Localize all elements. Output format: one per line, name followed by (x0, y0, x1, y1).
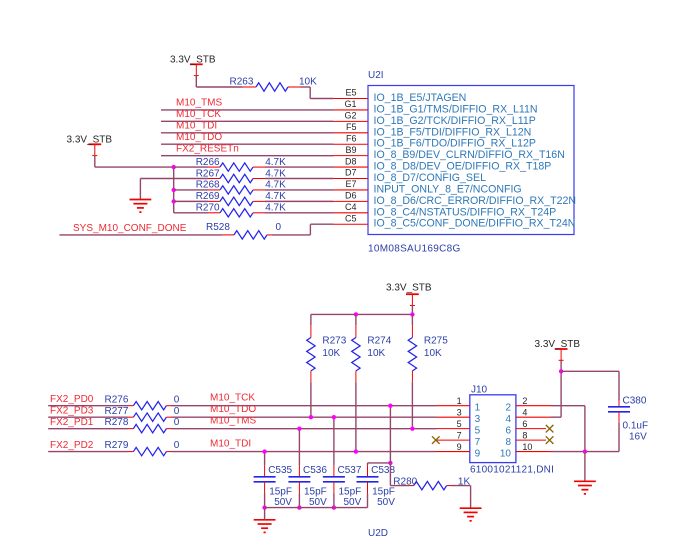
svg-text:D6: D6 (345, 191, 357, 201)
svg-text:10K: 10K (322, 348, 340, 359)
svg-text:0: 0 (174, 394, 180, 405)
svg-text:M10_TDO: M10_TDO (176, 132, 222, 143)
svg-text:3: 3 (475, 414, 481, 425)
svg-text:4.7K: 4.7K (265, 168, 286, 179)
svg-text:6: 6 (522, 419, 527, 429)
svg-text:50V: 50V (274, 497, 292, 508)
svg-text:FX2_PD1: FX2_PD1 (50, 417, 94, 428)
svg-text:R266: R266 (196, 157, 220, 168)
svg-text:3.3V_STB: 3.3V_STB (170, 54, 216, 65)
svg-text:4.7K: 4.7K (265, 180, 286, 191)
svg-text:R268: R268 (196, 180, 220, 191)
svg-text:E7: E7 (345, 179, 356, 189)
svg-text:C380: C380 (623, 396, 647, 407)
svg-text:FX2_PD2: FX2_PD2 (50, 440, 94, 451)
svg-text:3.3V_STB: 3.3V_STB (535, 339, 581, 350)
svg-text:1K: 1K (458, 476, 471, 487)
svg-text:8: 8 (505, 437, 511, 448)
svg-text:5: 5 (475, 426, 481, 437)
svg-text:0.1uF: 0.1uF (623, 421, 649, 432)
svg-text:IO_8_C5/CONF_DONE/DIFFIO_RX_T2: IO_8_C5/CONF_DONE/DIFFIO_RX_T24N (374, 218, 576, 230)
svg-text:IO_8_D8/DEV_OE/DIFFIO_RX_T18P: IO_8_D8/DEV_OE/DIFFIO_RX_T18P (374, 161, 552, 173)
svg-text:C4: C4 (345, 202, 357, 212)
svg-text:R279: R279 (105, 440, 129, 451)
svg-text:F5: F5 (346, 122, 357, 132)
svg-text:15pF: 15pF (304, 486, 327, 497)
svg-text:10K: 10K (367, 348, 385, 359)
svg-text:R267: R267 (196, 168, 220, 179)
svg-text:6: 6 (505, 426, 511, 437)
svg-text:B9: B9 (345, 145, 356, 155)
svg-text:0: 0 (174, 440, 180, 451)
svg-text:R276: R276 (105, 394, 129, 405)
svg-text:10M08SAU169C8G: 10M08SAU169C8G (368, 244, 461, 255)
svg-text:1: 1 (457, 396, 462, 406)
svg-text:D8: D8 (345, 156, 357, 166)
svg-text:50V: 50V (377, 497, 395, 508)
svg-text:INPUT_ONLY_8_E7/NCONFIG: INPUT_ONLY_8_E7/NCONFIG (374, 183, 522, 195)
svg-text:R275: R275 (424, 336, 448, 347)
svg-text:61001021121,DNI: 61001021121,DNI (470, 465, 554, 476)
svg-text:IO_8_B9/DEV_CLRN/DIFFIO_RX_T16: IO_8_B9/DEV_CLRN/DIFFIO_RX_T16N (374, 149, 565, 161)
svg-text:7: 7 (475, 437, 481, 448)
svg-text:10: 10 (522, 442, 532, 452)
svg-text:C536: C536 (303, 465, 327, 476)
svg-text:C5: C5 (345, 213, 357, 223)
svg-text:3: 3 (457, 407, 462, 417)
svg-text:D7: D7 (345, 168, 357, 178)
svg-text:FX2_PD0: FX2_PD0 (50, 394, 94, 405)
svg-text:15pF: 15pF (269, 486, 292, 497)
svg-text:2: 2 (505, 403, 511, 414)
svg-text:R277: R277 (105, 406, 129, 417)
svg-text:IO_8_D6/CRC_ERROR/DIFFIO_RX_T2: IO_8_D6/CRC_ERROR/DIFFIO_RX_T22N (374, 195, 577, 207)
svg-text:9: 9 (457, 442, 462, 452)
svg-text:IO_8_D7/CONFIG_SEL: IO_8_D7/CONFIG_SEL (374, 172, 487, 184)
svg-text:SYS_M10_CONF_DONE: SYS_M10_CONF_DONE (73, 223, 187, 234)
svg-text:IO_1B_F5/TDI/DIFFIO_RX_L12N: IO_1B_F5/TDI/DIFFIO_RX_L12N (374, 126, 532, 138)
svg-text:IO_1B_F6/TDO/DIFFIO_RX_L12P: IO_1B_F6/TDO/DIFFIO_RX_L12P (374, 138, 537, 150)
svg-text:R263: R263 (230, 77, 254, 88)
svg-text:M10_TDI: M10_TDI (176, 120, 217, 131)
svg-text:U2D: U2D (368, 528, 388, 539)
svg-text:IO_1B_G2/TCK/DIFFIO_RX_L11P: IO_1B_G2/TCK/DIFFIO_RX_L11P (374, 115, 536, 127)
svg-text:G1: G1 (344, 99, 356, 109)
svg-text:M10_TMS: M10_TMS (210, 415, 256, 426)
svg-text:0: 0 (174, 406, 180, 417)
svg-text:10: 10 (500, 449, 512, 460)
svg-text:0: 0 (174, 417, 180, 428)
svg-text:J10: J10 (471, 384, 488, 395)
svg-text:M10_TMS: M10_TMS (176, 98, 222, 109)
svg-text:16V: 16V (629, 431, 647, 442)
svg-text:M10_TDO: M10_TDO (210, 404, 256, 415)
svg-text:4: 4 (522, 407, 527, 417)
svg-text:4: 4 (505, 414, 511, 425)
svg-text:R280: R280 (393, 476, 417, 487)
svg-text:E5: E5 (345, 88, 356, 98)
svg-text:4.7K: 4.7K (265, 203, 286, 214)
svg-text:4.7K: 4.7K (265, 191, 286, 202)
svg-text:50V: 50V (309, 497, 327, 508)
svg-text:C538: C538 (371, 465, 395, 476)
svg-text:IO_8_C4/NSTATUS/DIFFIO_RX_T24P: IO_8_C4/NSTATUS/DIFFIO_RX_T24P (374, 206, 557, 218)
svg-text:15pF: 15pF (372, 486, 395, 497)
svg-text:R269: R269 (196, 191, 220, 202)
svg-text:IO_1B_G1/TMS/DIFFIO_RX_L11N: IO_1B_G1/TMS/DIFFIO_RX_L11N (374, 103, 538, 115)
svg-text:R278: R278 (105, 417, 129, 428)
svg-text:10K: 10K (299, 77, 317, 88)
svg-text:8: 8 (522, 430, 527, 440)
svg-text:4.7K: 4.7K (265, 157, 286, 168)
svg-text:FX2_RESETn: FX2_RESETn (176, 143, 239, 154)
svg-text:R270: R270 (196, 203, 220, 214)
svg-text:F6: F6 (346, 133, 357, 143)
svg-text:0: 0 (276, 222, 282, 233)
svg-text:M10_TCK: M10_TCK (210, 393, 255, 404)
svg-text:C537: C537 (338, 465, 362, 476)
svg-text:2: 2 (522, 396, 527, 406)
svg-text:5: 5 (457, 419, 462, 429)
svg-text:IO_1B_E5/JTAGEN: IO_1B_E5/JTAGEN (374, 92, 467, 104)
svg-text:50V: 50V (344, 497, 362, 508)
svg-text:FX2_PD3: FX2_PD3 (50, 406, 94, 417)
svg-text:U2I: U2I (368, 70, 384, 81)
svg-text:G2: G2 (344, 111, 356, 121)
svg-text:R273: R273 (322, 336, 346, 347)
svg-text:M10_TCK: M10_TCK (176, 109, 221, 120)
svg-text:C535: C535 (268, 465, 292, 476)
svg-text:1: 1 (475, 403, 481, 414)
svg-text:15pF: 15pF (339, 486, 362, 497)
svg-text:9: 9 (475, 449, 481, 460)
svg-text:3.3V_STB: 3.3V_STB (67, 134, 113, 145)
svg-text:3.3V_STB: 3.3V_STB (386, 282, 432, 293)
svg-text:R528: R528 (206, 222, 230, 233)
svg-text:10K: 10K (424, 348, 442, 359)
svg-text:R274: R274 (367, 336, 391, 347)
svg-text:M10_TDI: M10_TDI (210, 438, 251, 449)
svg-text:7: 7 (457, 430, 462, 440)
